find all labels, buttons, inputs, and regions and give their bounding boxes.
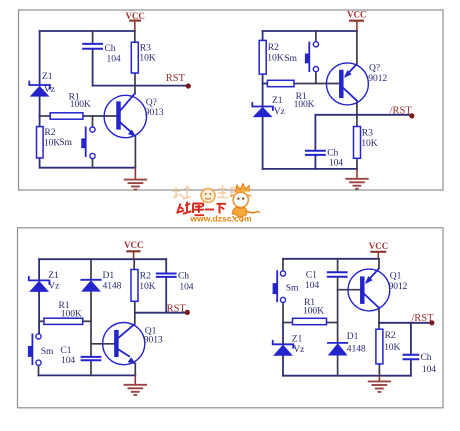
wire RST row TR — [315, 114, 411, 116]
watermark mascot — [231, 184, 260, 223]
wire R3 bottom stub TR — [356, 158, 358, 169]
watermark text weiku glyphs — [177, 202, 226, 216]
wire D1 bottom through R1 row to base row BL — [90, 292, 92, 357]
svg-text:Sm: Sm — [286, 283, 299, 294]
transistor Q1 9012 BR — [348, 269, 390, 311]
wire R1 row left stub BR — [283, 322, 291, 324]
svg-text:D1: D1 — [103, 270, 115, 281]
svg-text:RST: RST — [166, 73, 186, 84]
wire C1 top stub BR — [337, 259, 339, 272]
ground BL — [124, 375, 147, 395]
diode D1 BL — [80, 280, 101, 292]
watermark faint brand glyphs — [172, 185, 239, 199]
wire cap bottom stub TR — [314, 156, 316, 169]
bottom panel frame — [18, 228, 444, 408]
svg-text:VCC: VCC — [124, 240, 144, 250]
wire R1 row right stub BR — [326, 322, 338, 324]
resistor R2 TL — [37, 127, 44, 158]
svg-text:C1: C1 — [306, 269, 317, 280]
resistor R1 TR — [267, 80, 294, 86]
wire R1 row right stub BL — [83, 320, 91, 322]
wire emitter vertical BL — [134, 364, 136, 376]
wire top rail BR — [283, 258, 379, 260]
diode D1 BR — [327, 343, 348, 356]
svg-text:Sm: Sm — [284, 53, 297, 64]
svg-text:10K: 10K — [267, 52, 283, 63]
svg-text:100K: 100K — [303, 306, 324, 317]
node RST BL — [167, 303, 190, 315]
wire R2 top stub TL — [39, 116, 41, 127]
wire emitter vertical TL — [134, 137, 136, 168]
svg-text:Sm: Sm — [41, 346, 54, 357]
wire top rail TL — [40, 30, 135, 32]
svg-text:Sm: Sm — [59, 137, 72, 148]
wire bottom rail TL — [40, 167, 136, 169]
wire switch bottom stub TR — [315, 72, 317, 84]
svg-text:4148: 4148 — [347, 344, 366, 355]
zener Z1 TL — [29, 81, 50, 97]
svg-text:104: 104 — [179, 282, 193, 293]
wire bottom rail BL — [39, 374, 136, 376]
wire R2 bottom to ground rail TL — [39, 158, 41, 168]
wire R3 bottom / collector vertical TL — [134, 73, 136, 93]
wire R1 row to zener BR — [282, 323, 284, 345]
wire switch bottom to bottom rail BL — [38, 365, 40, 375]
node /RST BR — [411, 313, 434, 325]
resistor R1 BR — [293, 318, 327, 324]
svg-text:9013: 9013 — [144, 334, 163, 345]
wire Ch bottom stub BR — [410, 360, 412, 376]
watermark emblem circle — [201, 189, 215, 203]
svg-text:104: 104 — [422, 364, 436, 375]
svg-text:R2: R2 — [385, 330, 396, 341]
svg-text:100K: 100K — [294, 99, 315, 110]
resistor R2 TR — [259, 40, 266, 74]
ground TL — [124, 168, 147, 190]
wire R1 row left stub BL — [39, 320, 44, 322]
wire collector vertical BL — [134, 301, 136, 323]
wire collector vertical BR — [378, 308, 380, 330]
wire cap top stub TL — [92, 31, 94, 43]
wire zener to switch BL — [38, 292, 40, 334]
wire left vertical upper TR — [262, 31, 264, 40]
wire D1 bottom stub BR — [337, 356, 339, 376]
wire R1 row left stub TR — [263, 83, 268, 85]
wire top rail BL — [39, 258, 166, 260]
wire base row BL — [91, 343, 115, 345]
svg-text:Z1: Z1 — [48, 270, 59, 281]
resistor R3 TL — [131, 42, 138, 73]
switch Sm BR — [273, 270, 286, 302]
svg-text:104: 104 — [329, 158, 343, 169]
svg-text:Vz: Vz — [274, 106, 285, 117]
capacitor C1 BR — [327, 272, 348, 277]
wire switch bottom stub TL — [92, 159, 94, 168]
wire zener to bottom rail TR — [262, 117, 264, 169]
svg-text:104: 104 — [305, 280, 319, 291]
power VCC TL — [125, 11, 145, 21]
wire C1 bottom stub BL — [90, 361, 92, 376]
resistor R1 TL — [50, 113, 83, 119]
wire R2 top stub BL — [133, 259, 135, 269]
wire bottom rail TR — [263, 168, 357, 170]
wire cap top stub TR — [314, 115, 316, 150]
svg-text:R2: R2 — [44, 127, 55, 138]
svg-text:Z1: Z1 — [42, 71, 53, 82]
svg-text:VCC: VCC — [369, 241, 389, 251]
switch Sm TL — [81, 127, 95, 159]
zener Z1 TR — [252, 102, 273, 117]
wire bottom rail BR — [283, 375, 411, 377]
svg-text:10K: 10K — [44, 138, 60, 149]
transistor Q? 9012 TR — [326, 63, 368, 105]
svg-text:Ch: Ch — [178, 271, 189, 282]
capacitor Ch BR — [403, 355, 420, 360]
wire R1 row right to base TL — [83, 115, 117, 117]
node RST TL — [166, 73, 191, 88]
zener Z1 BR — [273, 340, 294, 356]
wire R1 row left stub TL — [40, 115, 51, 117]
wire switch top stub TL — [92, 116, 94, 127]
resistor R2 BR — [376, 329, 383, 364]
wire VCC stub down TL — [134, 20, 136, 31]
svg-text:R2: R2 — [268, 42, 279, 53]
svg-text:VCC: VCC — [347, 10, 367, 20]
wire Ch top stub BL — [165, 259, 167, 273]
wire left vertical TL (top wire to zener) — [39, 31, 41, 85]
ground BR — [368, 376, 391, 392]
svg-text:10K: 10K — [384, 342, 400, 353]
svg-text:9012: 9012 — [389, 281, 408, 292]
wire D1 top stub BL — [90, 259, 92, 279]
svg-text:/RST: /RST — [390, 105, 413, 116]
ground TR — [345, 169, 368, 189]
wire zener to R1 row TL — [39, 97, 41, 117]
capacitor C1 BL — [81, 357, 102, 360]
switch Sm TR — [305, 42, 319, 73]
wire base row BR — [338, 289, 361, 291]
wire VCC stub down TR — [356, 21, 358, 31]
svg-text:Z1: Z1 — [272, 95, 283, 106]
wire R2 bottom stub BR — [378, 364, 380, 376]
svg-text:Q1: Q1 — [390, 270, 402, 281]
wire collector vertical TR — [356, 101, 358, 127]
svg-text:10K: 10K — [139, 53, 155, 64]
wire switch bottom to R1 row BR — [282, 303, 284, 323]
svg-text:10K: 10K — [139, 281, 155, 292]
zener Z1 BL — [29, 276, 50, 292]
svg-text:9013: 9013 — [145, 107, 164, 118]
svg-text:Ch: Ch — [421, 352, 432, 363]
svg-text:4148: 4148 — [103, 281, 122, 292]
svg-text:104: 104 — [107, 53, 121, 64]
wire Ch top stub BR — [410, 323, 412, 354]
svg-text:Vz: Vz — [44, 84, 55, 95]
wire emitter vertical TR — [356, 31, 358, 64]
resistor R2 BL — [131, 270, 138, 302]
wire left vertical to zener BL — [38, 259, 40, 280]
switch Sm BL — [28, 334, 41, 366]
svg-text:9012: 9012 — [368, 73, 387, 84]
glyph xia — [217, 204, 227, 214]
capacitor Ch TR — [305, 151, 326, 155]
wire top rail TR — [263, 30, 357, 32]
capacitor Ch BL — [156, 274, 177, 277]
svg-text:Vz: Vz — [48, 281, 59, 292]
wire R2 bottom to R1 row TR — [262, 74, 264, 83]
wire zener to bottom rail BR — [282, 356, 284, 376]
svg-text:Vz: Vz — [293, 344, 304, 355]
svg-text:RST: RST — [167, 303, 187, 314]
wire cap bottom to RST row TL — [92, 50, 94, 86]
transistor Q? 9013 TL — [104, 93, 146, 138]
wire Ch bottom to RST row BL — [165, 278, 167, 313]
wire RST row BL — [135, 312, 187, 314]
svg-text:D1: D1 — [347, 331, 359, 342]
power VCC TR — [347, 10, 367, 21]
svg-text:Q?: Q? — [369, 62, 380, 73]
resistor R3 TR — [354, 127, 361, 159]
wire R1 row to zener TR — [262, 84, 264, 107]
wire C1 bottom through base row to D1 BR — [337, 278, 339, 343]
wire emitter vertical BR — [378, 259, 380, 269]
svg-text:Ch: Ch — [105, 43, 116, 54]
transistor Q1 9013 BL — [103, 323, 145, 365]
resistor R1 BL — [44, 318, 83, 324]
glyph wei — [177, 202, 192, 214]
capacitor Ch TL — [82, 44, 103, 49]
wire RST row BR — [379, 322, 432, 324]
node /RST TR — [390, 105, 415, 118]
wire VCC stub down BR — [377, 252, 379, 259]
wire R1 row right to base TR — [294, 83, 340, 85]
wire R3 top stub TL — [134, 31, 136, 42]
svg-text:Z1: Z1 — [292, 333, 303, 344]
power VCC BR — [369, 241, 389, 252]
glyph yi — [205, 209, 214, 211]
svg-text:10K: 10K — [361, 138, 377, 149]
power VCC BL — [124, 240, 144, 252]
svg-text:100K: 100K — [61, 308, 82, 319]
top panel frame — [19, 10, 444, 190]
wire left vertical to switch BR — [282, 259, 284, 271]
svg-text:104: 104 — [61, 355, 75, 366]
wire VCC stub down BL — [133, 251, 135, 259]
svg-text:100K: 100K — [70, 99, 91, 110]
wire RST row TL — [93, 85, 188, 87]
wire switch top stub TR — [315, 31, 317, 42]
glyph ku — [193, 204, 204, 216]
